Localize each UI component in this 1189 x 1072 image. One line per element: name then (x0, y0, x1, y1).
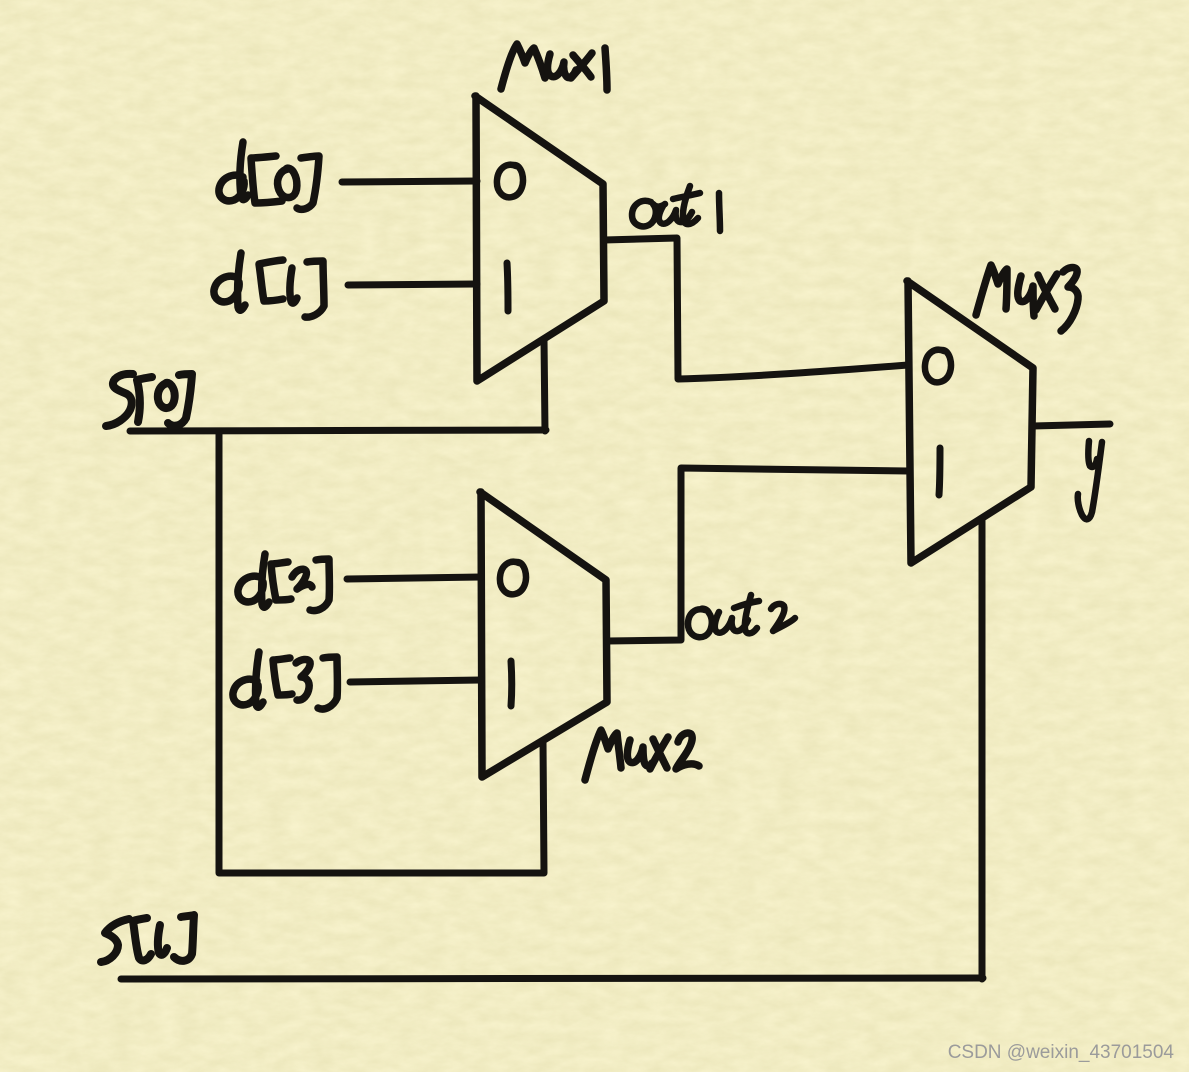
wire S[0] branch to U2 select (219, 431, 544, 873)
label S[0] (106, 374, 192, 426)
wire d[2] to U2 (347, 577, 481, 579)
label d[3] (233, 652, 338, 709)
label MUX1 title (501, 44, 607, 90)
wire U3 output (1033, 424, 1110, 426)
mux U2 body (480, 492, 607, 777)
pin label 0 (U2) (500, 562, 526, 595)
label d[1] (214, 253, 324, 317)
label d[2] (238, 554, 330, 611)
pin label 1 (U3) (939, 448, 940, 495)
wire S[1] rail (121, 978, 983, 979)
pin label 1 (U2) (508, 661, 516, 706)
wire S[0] rail (130, 430, 546, 431)
wire d[3] to U2 (350, 680, 481, 682)
wire d[0] to U1 (342, 181, 477, 182)
pin label 0 (U3) (925, 350, 951, 383)
wire out1 (U1 output to U3 input 0) (604, 238, 908, 379)
mux U3 body (907, 281, 1033, 563)
wire d[1] to U1 (348, 284, 477, 285)
wire U3 select riser (979, 518, 986, 979)
label out2 (688, 595, 795, 637)
wire U1 select riser (544, 339, 545, 431)
svg-text:CSDN @weixin_43701504: CSDN @weixin_43701504 (948, 1042, 1175, 1063)
label S[1] (101, 915, 194, 962)
wire out2 (U2 output to U3 input 1) (607, 468, 908, 641)
mux U1 body (475, 96, 604, 381)
label out1 (632, 186, 720, 231)
label d[0] (219, 142, 319, 209)
label MUX2 title (585, 730, 699, 780)
label MUX3 title (976, 265, 1078, 331)
pin label 0 (U1) (497, 165, 523, 198)
label y (1078, 441, 1102, 519)
pin label 1 (U1) (507, 263, 508, 311)
